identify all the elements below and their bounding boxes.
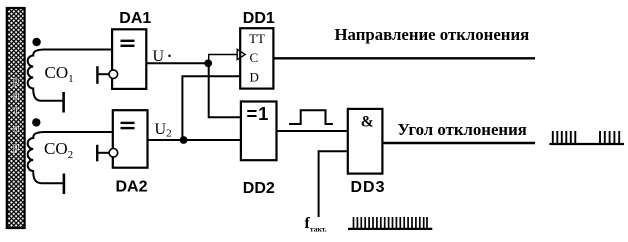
comparator DA1 bbox=[112, 29, 146, 89]
CO1 bottom terminal bar bbox=[62, 92, 65, 113]
svg-text:Направление отклонения: Направление отклонения bbox=[335, 25, 530, 44]
dynamic input arrow at DD1 C bbox=[237, 49, 245, 59]
pulse symbol on DD2 output bbox=[289, 110, 333, 124]
sensor coil CO1 bbox=[28, 50, 63, 101]
svg-text:TT: TT bbox=[249, 31, 265, 46]
wire DD3 output (angle) bbox=[382, 142, 535, 144]
junction U1 bbox=[204, 59, 212, 67]
rotor screen (hatched bar) bbox=[7, 8, 25, 228]
CO2 bottom terminal bar bbox=[63, 174, 66, 195]
junction U2 bbox=[180, 136, 188, 144]
svg-text:DD3: DD3 bbox=[351, 179, 386, 196]
wire U2 : DA2 output to DD2 input 2 bbox=[148, 139, 241, 141]
svg-text:т: т bbox=[13, 104, 18, 116]
svg-text:р: р bbox=[13, 141, 19, 153]
svg-text:DA1: DA1 bbox=[119, 10, 151, 27]
svg-text:D: D bbox=[250, 70, 259, 85]
wire CO1 to DA1 input bbox=[44, 49, 112, 51]
wire DD2 output to DD3 input 1 bbox=[277, 130, 348, 132]
sensor coil CO2 bbox=[28, 132, 63, 183]
wire U1 riser to DD1 C input bbox=[209, 55, 238, 64]
svg-text:U: U bbox=[153, 48, 165, 65]
DA1 inverting input bubble bbox=[109, 70, 118, 79]
DA2 inverting input bubble bbox=[109, 149, 118, 158]
label "ротор" on screen bbox=[13, 75, 19, 153]
wire U1 : DA1 output to junction bbox=[146, 62, 208, 64]
svg-text:Угол отклонения: Угол отклонения bbox=[398, 120, 527, 139]
wire f_takt to DD3 input 2 bbox=[319, 151, 348, 217]
output pulse bursts bbox=[549, 131, 624, 144]
wire U1 down to DD2 input 1 bbox=[209, 63, 241, 117]
clock pulse train bbox=[348, 217, 432, 229]
DA1 reference input terminal bbox=[96, 66, 109, 84]
svg-text:C: C bbox=[250, 50, 259, 65]
wire CO2 to DA2 input bbox=[44, 131, 113, 133]
svg-text:р: р bbox=[13, 75, 19, 87]
svg-text:о: о bbox=[13, 90, 19, 102]
svg-text:DD2: DD2 bbox=[243, 180, 275, 197]
D flip-flop DD1 bbox=[240, 28, 273, 88]
svg-text:о: о bbox=[13, 123, 19, 135]
svg-text:DD1: DD1 bbox=[243, 10, 275, 27]
svg-text:&: & bbox=[361, 113, 374, 130]
XOR gate DD2 bbox=[241, 102, 277, 161]
comparator DA2 bbox=[113, 110, 148, 168]
svg-text:DA2: DA2 bbox=[116, 178, 148, 195]
wire DD1 output (direction) bbox=[273, 57, 535, 59]
wire U2 up to DD1 D input bbox=[182, 76, 240, 140]
svg-text:=1: =1 bbox=[247, 103, 270, 124]
DA2 reference input terminal bbox=[96, 145, 110, 162]
polarity dot of coil CO2 bbox=[32, 118, 40, 126]
polarity dot of coil CO1 bbox=[32, 38, 40, 46]
AND gate DD3 bbox=[348, 109, 383, 174]
